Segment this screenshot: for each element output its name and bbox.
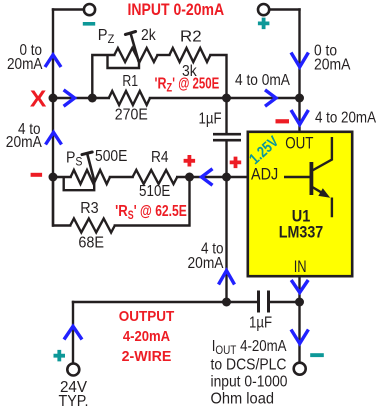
wire capacitor C1 branch vertical bbox=[225, 98, 227, 302]
wire Pz branch riser bbox=[92, 55, 114, 98]
svg-text:20mA: 20mA bbox=[188, 255, 224, 272]
resistor R4 bbox=[133, 170, 178, 184]
potentiometer Ps wiper loop bbox=[64, 177, 94, 190]
svg-text:4-20mA: 4-20mA bbox=[123, 328, 170, 345]
junction ADJ left bbox=[49, 173, 58, 182]
wire ADJ horizontal bbox=[53, 176, 247, 178]
svg-text:OUTPUT: OUTPUT bbox=[119, 308, 175, 325]
svg-text:OUT: OUT bbox=[285, 133, 313, 152]
wire R3 branch bbox=[53, 177, 190, 226]
svg-text:R2: R2 bbox=[180, 29, 202, 46]
transistor Q1 emitter bbox=[311, 187, 332, 218]
current arrow left ADJ wire bbox=[202, 169, 213, 185]
terminal input minus bbox=[84, 4, 95, 15]
wire left vertical bbox=[52, 10, 54, 226]
svg-text:TYP.: TYP. bbox=[59, 393, 89, 410]
transistor Q1 base bar bbox=[309, 162, 313, 195]
junction C1 bottom bbox=[222, 173, 231, 182]
svg-text:INPUT 0-20mA: INPUT 0-20mA bbox=[128, 1, 225, 19]
svg-text:' @ 250E: ' @ 250E bbox=[172, 76, 219, 93]
resistor R1 bbox=[109, 91, 150, 105]
svg-text:'R: 'R bbox=[155, 76, 167, 93]
svg-text:'R: 'R bbox=[115, 203, 128, 220]
wire to output minus terminal bbox=[298, 302, 300, 363]
current arrow down 4-20mA right bbox=[291, 110, 308, 125]
polarity minus teal top-left bbox=[83, 22, 95, 26]
transistor Q1 collector bbox=[311, 137, 332, 171]
svg-text:1µF: 1µF bbox=[249, 315, 272, 332]
current arrow up 24V riser bbox=[64, 326, 82, 339]
svg-text:4 to 0mA: 4 to 0mA bbox=[235, 72, 290, 89]
wire 24V riser bbox=[72, 302, 74, 364]
polarity plus red at R4 junction bbox=[184, 155, 196, 167]
polarity plus teal top-right bbox=[258, 18, 270, 30]
junction output wire right bbox=[295, 298, 304, 307]
svg-text:' @ 62.5E: ' @ 62.5E bbox=[134, 203, 187, 220]
junction R4 right bbox=[185, 173, 194, 182]
wire output bottom horizontal bbox=[73, 301, 300, 303]
terminal input plus bbox=[258, 4, 269, 15]
svg-text:to DCS/PLC: to DCS/PLC bbox=[211, 357, 287, 374]
wire right vertical to regulator OUT bbox=[298, 10, 300, 131]
svg-text:Ohm load: Ohm load bbox=[211, 391, 275, 408]
svg-text:ADJ: ADJ bbox=[251, 164, 278, 183]
polarity plus red at ADJ pin bbox=[230, 157, 242, 169]
svg-text:20mA: 20mA bbox=[314, 57, 351, 74]
current arrow up 4-20mA left bbox=[46, 132, 62, 144]
junction output wire left bbox=[222, 298, 231, 307]
polarity minus red left bbox=[31, 173, 42, 177]
current arrow down 0-20mA right bbox=[291, 53, 308, 68]
capacitor C2 plates bbox=[259, 291, 269, 313]
potentiometer Pz wiper T-bar bbox=[125, 32, 135, 35]
svg-text:X: X bbox=[30, 86, 47, 112]
terminal output minus bbox=[294, 363, 306, 375]
potentiometer Pz wiper loop bbox=[108, 55, 140, 68]
wire regulator IN down bbox=[298, 277, 300, 302]
current arrow right 4-0mA bbox=[265, 90, 276, 106]
current arrow down IN pin bbox=[291, 280, 308, 293]
svg-text:510E: 510E bbox=[139, 183, 170, 200]
capacitor C1 plates bbox=[213, 134, 241, 140]
svg-text:input 0-1000: input 0-1000 bbox=[211, 373, 288, 390]
svg-text:2-WIRE: 2-WIRE bbox=[122, 348, 172, 365]
svg-text:2k: 2k bbox=[141, 27, 157, 44]
polarity plus teal 24V bbox=[54, 350, 66, 362]
potentiometer Pz wiper arm bbox=[131, 33, 139, 62]
potentiometer Ps wiper T-bar bbox=[82, 152, 92, 155]
polarity minus teal bottom-right bbox=[310, 353, 324, 357]
svg-text:R4: R4 bbox=[151, 149, 169, 166]
potentiometer Ps resistor body bbox=[71, 170, 110, 184]
svg-text:IN: IN bbox=[294, 257, 307, 276]
svg-text:500E: 500E bbox=[95, 148, 127, 165]
current arrow up 0-20mA left bbox=[45, 55, 61, 67]
junction Pz riser bbox=[88, 94, 97, 103]
svg-text:R3: R3 bbox=[80, 200, 98, 217]
wire top-right horizontal bbox=[269, 8, 299, 10]
current arrow up center riser bbox=[219, 271, 235, 285]
resistor R2 bbox=[169, 48, 210, 62]
terminal 24V plus bbox=[67, 364, 79, 376]
wire R2 to corner down bbox=[210, 55, 226, 98]
svg-text:1µF: 1µF bbox=[199, 110, 222, 127]
wire top-left horizontal bbox=[53, 8, 84, 10]
transistor Q1 emitter arrowhead bbox=[318, 188, 330, 198]
svg-text:4 to 20mA: 4 to 20mA bbox=[315, 110, 376, 127]
svg-text:68E: 68E bbox=[78, 235, 104, 252]
junction C1 top bbox=[222, 94, 231, 103]
junction node X bbox=[49, 94, 58, 103]
svg-text:270E: 270E bbox=[115, 107, 148, 124]
svg-text:R1: R1 bbox=[122, 73, 138, 90]
potentiometer Ps wiper arm bbox=[87, 153, 95, 182]
potentiometer Pz resistor body bbox=[114, 48, 157, 62]
svg-text:20mA: 20mA bbox=[6, 134, 42, 151]
current arrow right at node X bbox=[64, 90, 75, 106]
junction OUT line bbox=[295, 94, 304, 103]
svg-text:Z: Z bbox=[167, 83, 173, 95]
svg-text:20mA: 20mA bbox=[7, 56, 43, 73]
regulator U1 body bbox=[248, 132, 352, 276]
current arrow down to output minus bbox=[291, 330, 308, 344]
transistor Q1 base lead bbox=[284, 176, 310, 178]
wire Pz to R2 bbox=[158, 54, 170, 56]
polarity minus red right bbox=[276, 119, 290, 123]
svg-text:LM337: LM337 bbox=[279, 223, 323, 242]
resistor R3 bbox=[70, 219, 115, 233]
wire node X horizontal bbox=[53, 97, 300, 99]
